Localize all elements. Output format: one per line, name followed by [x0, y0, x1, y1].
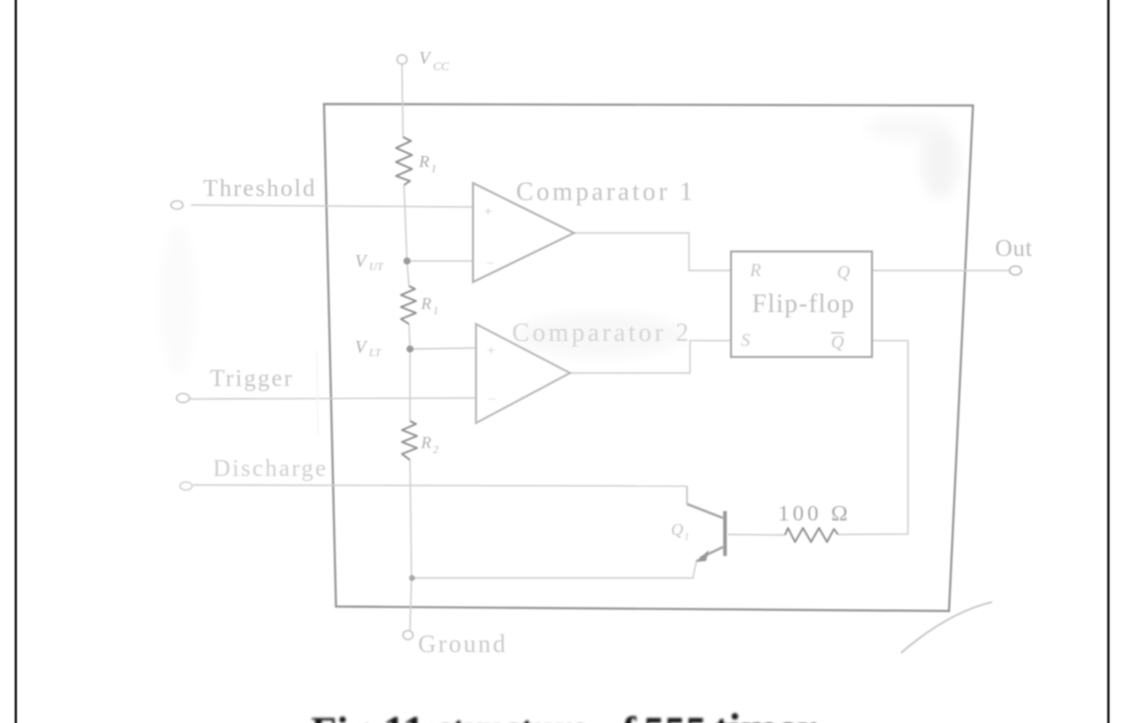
svg-text:Ground: Ground [418, 631, 508, 658]
svg-text:of: of [601, 710, 637, 723]
svg-text:Comparator 1: Comparator 1 [516, 177, 696, 206]
svg-text:1: 1 [433, 305, 439, 317]
svg-text:Q: Q [831, 332, 844, 352]
svg-text:100 Ω: 100 Ω [778, 501, 851, 526]
svg-text:Flip-flop: Flip-flop [752, 289, 855, 318]
svg-text:555: 555 [644, 710, 707, 723]
svg-text:−: − [486, 256, 494, 272]
svg-text:2: 2 [433, 444, 439, 456]
svg-text:R: R [418, 152, 430, 171]
svg-text:Fig.: Fig. [311, 710, 380, 723]
svg-text:Threshold: Threshold [203, 176, 317, 202]
svg-text:R: R [749, 260, 761, 280]
svg-text:Discharge: Discharge [213, 456, 328, 482]
svg-text:UT: UT [369, 261, 384, 273]
svg-text:structure: structure [437, 709, 588, 723]
svg-text:Out: Out [995, 236, 1033, 262]
svg-text:Trigger: Trigger [210, 366, 294, 392]
svg-text:+: + [487, 343, 495, 359]
svg-text:R: R [420, 294, 432, 313]
svg-text:S: S [741, 330, 750, 350]
svg-text:timer: timer [714, 705, 817, 723]
svg-text:1: 1 [431, 163, 437, 175]
svg-text:−: − [488, 392, 496, 408]
svg-text:CC: CC [433, 59, 450, 73]
svg-text:LT: LT [368, 347, 382, 359]
svg-text:Comparator 2: Comparator 2 [512, 318, 692, 347]
svg-text:+: + [484, 204, 492, 220]
svg-text:R: R [420, 433, 432, 452]
svg-text:Q: Q [671, 520, 683, 539]
svg-text:1: 1 [684, 531, 690, 543]
svg-text:Q: Q [837, 262, 850, 282]
svg-text:11:: 11: [383, 707, 439, 723]
